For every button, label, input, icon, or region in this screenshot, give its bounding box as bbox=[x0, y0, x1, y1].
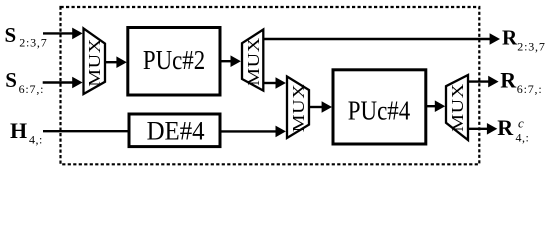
wire MUX U4 to output R_6:7,: bbox=[468, 76, 499, 88]
wire PUc#2 to MUX U2 bbox=[220, 55, 241, 67]
svg-text:MUX: MUX bbox=[448, 83, 467, 131]
wire MUX U2 to MUX U3 bbox=[263, 77, 286, 89]
wire S_6:7,: to MUX U1 bbox=[43, 77, 83, 89]
output label R_6:7,: bbox=[500, 67, 542, 96]
svg-text:R: R bbox=[500, 67, 517, 92]
svg-text:MUX: MUX bbox=[244, 37, 263, 85]
wire H_4,: to DE#4 bbox=[43, 130, 129, 132]
svg-text:4,:: 4,: bbox=[516, 131, 530, 145]
wire MUX U4 to output R_4,:^c bbox=[468, 123, 497, 135]
svg-text:S: S bbox=[5, 68, 17, 92]
svg-text:S: S bbox=[5, 23, 17, 47]
wire DE#4 to MUX U3 bbox=[220, 126, 286, 138]
svg-text:6:7,:: 6:7,: bbox=[517, 82, 543, 96]
input label S_6:7,: bbox=[5, 68, 44, 96]
svg-text:MUX: MUX bbox=[289, 84, 308, 132]
output label R_4,:^c bbox=[497, 115, 529, 145]
svg-text:H: H bbox=[10, 118, 27, 143]
wire S_2:3,7 to MUX U1 bbox=[43, 28, 83, 40]
dashed boundary box bbox=[61, 7, 480, 164]
mux U4 bbox=[446, 75, 468, 140]
mux U3 bbox=[287, 77, 309, 139]
input label S_2:3,7 bbox=[5, 23, 48, 50]
svg-text:4,:: 4,: bbox=[29, 132, 43, 146]
wire PUc#4 to MUX U4 bbox=[426, 100, 445, 112]
mux U2 bbox=[242, 30, 264, 91]
wire MUX U1 to PUc#2 bbox=[105, 56, 127, 68]
wire MUX U2 to output R_2:3,7 bbox=[263, 33, 500, 45]
svg-text:PUc#4: PUc#4 bbox=[348, 95, 411, 125]
output label R_2:3,7 bbox=[502, 26, 546, 54]
mux U1 bbox=[84, 28, 106, 94]
block PUc#4 bbox=[333, 70, 426, 144]
svg-text:2:3,7: 2:3,7 bbox=[517, 39, 545, 53]
block PUc#2 bbox=[128, 28, 220, 96]
wire MUX U3 to PUc#4 bbox=[309, 101, 332, 113]
svg-text:R: R bbox=[497, 115, 514, 140]
svg-text:MUX: MUX bbox=[85, 38, 104, 86]
svg-text:2:3,7: 2:3,7 bbox=[19, 36, 47, 50]
svg-text:PUc#2: PUc#2 bbox=[143, 45, 205, 75]
svg-text:6:7,:: 6:7,: bbox=[19, 82, 45, 96]
block DE#4 bbox=[129, 114, 220, 147]
svg-text:c: c bbox=[518, 115, 524, 130]
input label H_4,: bbox=[10, 118, 43, 147]
svg-text:DE#4: DE#4 bbox=[147, 116, 205, 145]
svg-text:R: R bbox=[502, 26, 518, 50]
